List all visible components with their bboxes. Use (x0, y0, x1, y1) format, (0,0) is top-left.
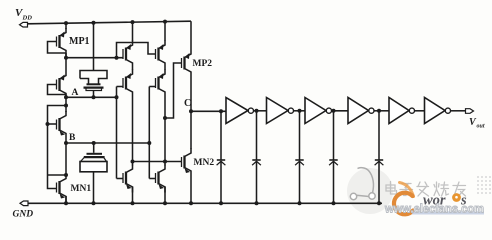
svg-text:C: C (184, 98, 191, 109)
svg-text:MN1: MN1 (71, 184, 92, 194)
svg-text:www.elecfans.com: www.elecfans.com (384, 202, 484, 216)
svg-text:DD: DD (22, 15, 33, 22)
svg-text:GND: GND (13, 210, 34, 220)
svg-text:MN2: MN2 (194, 158, 215, 168)
svg-text:out: out (477, 124, 485, 130)
svg-text:MP1: MP1 (69, 36, 90, 47)
svg-text:MP2: MP2 (193, 59, 213, 69)
svg-text:B: B (69, 133, 76, 143)
svg-text:A: A (72, 88, 79, 98)
